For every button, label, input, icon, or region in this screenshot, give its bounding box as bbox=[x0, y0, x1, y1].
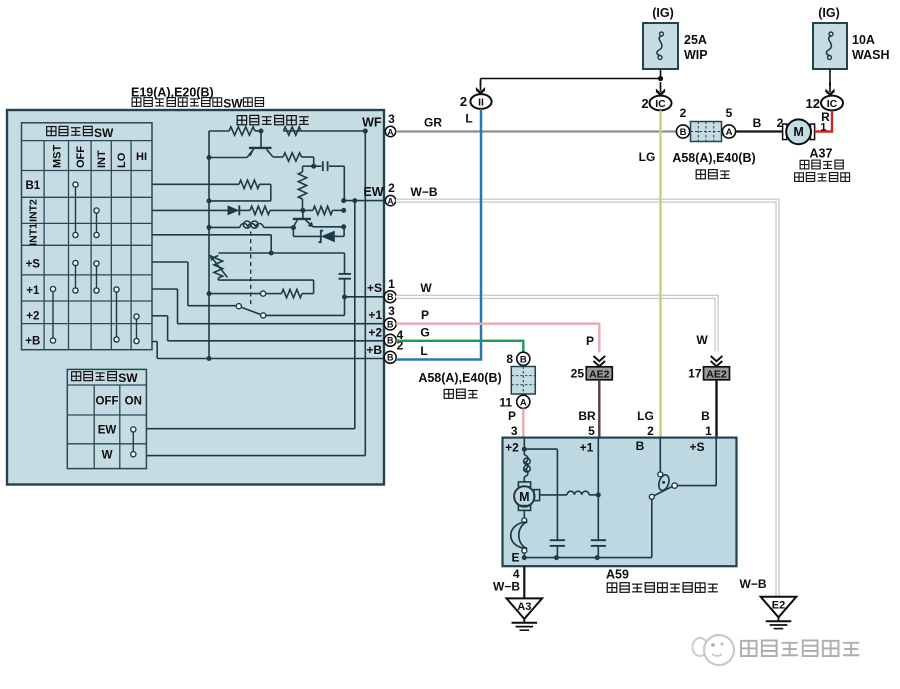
capacitor C3 bbox=[550, 539, 565, 541]
svg-text:IC: IC bbox=[655, 98, 666, 110]
svg-text:WIP: WIP bbox=[684, 48, 708, 62]
parking cam crescent bbox=[511, 522, 527, 549]
connector 25 AE2 bbox=[594, 361, 606, 366]
svg-text:MST: MST bbox=[51, 145, 63, 169]
svg-text:10A: 10A bbox=[852, 33, 875, 47]
svg-text:P: P bbox=[508, 409, 516, 423]
svg-text:1: 1 bbox=[820, 122, 826, 134]
svg-text:B: B bbox=[753, 116, 762, 130]
svg-text:25A: 25A bbox=[684, 33, 707, 47]
svg-text:EW: EW bbox=[363, 185, 383, 199]
A59 +1 wire bbox=[597, 438, 599, 540]
+S row wire bbox=[152, 261, 188, 263]
wire GR (WF to junction) bbox=[396, 130, 677, 132]
svg-text:A3: A3 bbox=[517, 601, 531, 613]
resistor R8 bbox=[302, 293, 314, 295]
node B1 row / wire via resistor R5 bbox=[152, 183, 239, 185]
wire R (12 IC to washer motor) bbox=[815, 111, 832, 132]
node top rail / R1-R2 junction bbox=[259, 129, 264, 134]
svg-text:EW: EW bbox=[98, 425, 117, 437]
resistor R1 bbox=[229, 127, 255, 135]
svg-text:12: 12 bbox=[806, 96, 820, 111]
variable resistor VR1 bbox=[214, 256, 223, 279]
svg-text:(IG): (IG) bbox=[818, 6, 840, 20]
INT1 row wire bbox=[152, 234, 271, 236]
wire B (junction to washer motor) bbox=[736, 130, 783, 132]
svg-text:2: 2 bbox=[641, 96, 648, 111]
svg-text:+B: +B bbox=[366, 343, 382, 357]
wire P (+1 to 25 AE2) bbox=[396, 324, 600, 353]
relay coil L1 bbox=[209, 226, 240, 228]
svg-text:W−B: W−B bbox=[411, 185, 438, 199]
svg-text:WASH: WASH bbox=[852, 48, 890, 62]
svg-text:A: A bbox=[387, 127, 393, 137]
resistor R5 bbox=[239, 180, 260, 188]
ground E2 bbox=[761, 597, 797, 618]
svg-text:A59: A59 bbox=[606, 568, 629, 582]
svg-text:AE2: AE2 bbox=[706, 368, 727, 380]
resistor R3 bbox=[273, 156, 283, 158]
svg-text:A37: A37 bbox=[810, 147, 833, 161]
svg-text:B: B bbox=[387, 319, 394, 329]
svg-text:(IG): (IG) bbox=[652, 6, 674, 20]
svg-text:+1: +1 bbox=[580, 441, 594, 455]
connector 17 AE2 bbox=[711, 361, 723, 366]
svg-text:11: 11 bbox=[499, 396, 512, 410]
svg-text:B: B bbox=[387, 336, 394, 346]
arrow into II bbox=[480, 81, 482, 91]
capacitor C1 bbox=[314, 165, 322, 167]
logo text bbox=[741, 641, 757, 656]
svg-text:2: 2 bbox=[460, 94, 467, 109]
front wiper switch table bbox=[22, 123, 153, 350]
svg-text:A: A bbox=[726, 127, 733, 138]
svg-text:SW: SW bbox=[94, 126, 114, 140]
relay supply rail top bbox=[209, 130, 229, 132]
relay contact arm bbox=[241, 307, 261, 314]
svg-text:L: L bbox=[420, 344, 427, 358]
A59 +2 node bbox=[523, 438, 525, 455]
ground A3 bbox=[507, 598, 543, 619]
park switch contacts bbox=[672, 483, 677, 488]
armature choke coil bbox=[524, 455, 528, 477]
svg-text:WF: WF bbox=[362, 116, 382, 130]
wiper switch assembly E19(A),E20(B) box bbox=[7, 110, 384, 485]
relay contact c bbox=[261, 313, 266, 318]
EW node wire bbox=[344, 200, 384, 202]
svg-text:B: B bbox=[680, 127, 687, 138]
transistor Q2 bbox=[302, 210, 304, 219]
+2 row wire bbox=[152, 315, 168, 317]
junction bbox=[658, 76, 663, 81]
svg-text:1: 1 bbox=[705, 424, 712, 438]
wire L (+B to II) bbox=[396, 109, 481, 360]
svg-text:E2: E2 bbox=[772, 599, 785, 611]
capacitor C2 bbox=[339, 273, 352, 275]
svg-text:M: M bbox=[519, 490, 529, 504]
resistor R4 bbox=[303, 165, 314, 167]
contact to +S pin wire bbox=[266, 314, 345, 316]
svg-text:+2: +2 bbox=[368, 325, 382, 339]
wire branch to II connector bbox=[481, 78, 661, 80]
EW to washer switch wire bbox=[354, 201, 356, 429]
svg-text:2: 2 bbox=[680, 106, 687, 120]
front washer switch table bbox=[67, 369, 146, 468]
INT2 row wire bbox=[152, 209, 228, 211]
svg-text:+2: +2 bbox=[26, 311, 39, 323]
svg-text:IC: IC bbox=[827, 98, 838, 110]
mechanical link (dashed) bbox=[250, 232, 252, 306]
+B row wire bbox=[152, 341, 157, 343]
svg-text:OFF: OFF bbox=[75, 146, 87, 168]
brush coil to +1 bbox=[540, 494, 567, 496]
svg-text:P: P bbox=[586, 334, 594, 348]
svg-text:M: M bbox=[793, 125, 803, 139]
svg-text:A58(A),E40(B): A58(A),E40(B) bbox=[672, 151, 755, 165]
wiper motor A59 box bbox=[503, 438, 737, 567]
svg-text:ON: ON bbox=[125, 396, 142, 408]
svg-text:LG: LG bbox=[639, 150, 656, 164]
washer motor A37 bbox=[783, 124, 787, 140]
svg-text:W: W bbox=[420, 281, 432, 295]
svg-text:L: L bbox=[465, 112, 472, 126]
switch position contacts bbox=[75, 185, 77, 236]
wire W-B (EW to E2 ground) bbox=[396, 201, 778, 597]
svg-text:+2: +2 bbox=[505, 441, 519, 455]
interval control line bbox=[218, 252, 344, 254]
wire P (11A to A59 +2) bbox=[522, 409, 524, 438]
svg-text:P: P bbox=[421, 308, 429, 322]
svg-text:B: B bbox=[387, 353, 394, 363]
svg-text:1: 1 bbox=[388, 277, 395, 291]
svg-text:AE2: AE2 bbox=[589, 368, 610, 380]
wire G (+2 to junction 8B) bbox=[396, 341, 524, 352]
svg-text:W: W bbox=[696, 333, 708, 347]
svg-text:A: A bbox=[520, 397, 527, 408]
resistor R6 bbox=[239, 209, 250, 211]
svg-text:LG: LG bbox=[637, 409, 654, 423]
svg-text:LO: LO bbox=[116, 152, 128, 168]
svg-text:INT: INT bbox=[96, 150, 108, 168]
E node line bbox=[524, 557, 652, 559]
relay contact a bbox=[261, 291, 266, 296]
svg-text:8: 8 bbox=[506, 352, 513, 366]
park switch cam bbox=[657, 474, 671, 492]
svg-text:W: W bbox=[102, 450, 113, 462]
svg-text:HI: HI bbox=[136, 151, 147, 163]
svg-text:2: 2 bbox=[388, 181, 395, 195]
svg-text:W−B: W−B bbox=[493, 580, 520, 594]
svg-text:5: 5 bbox=[588, 424, 595, 438]
svg-text:+S: +S bbox=[367, 281, 382, 295]
svg-text:II: II bbox=[478, 97, 484, 109]
logo icon bbox=[693, 638, 708, 656]
svg-text:W−B: W−B bbox=[740, 577, 767, 591]
svg-text:+1: +1 bbox=[26, 285, 40, 297]
park switch to +S bbox=[677, 485, 716, 487]
wire BR (25 AE2 to A59 +1) bbox=[598, 380, 600, 438]
motor to parking cam bbox=[523, 510, 525, 517]
wire from WASH fuse bbox=[829, 69, 831, 86]
motor M bbox=[518, 482, 530, 487]
svg-text:2: 2 bbox=[647, 424, 654, 438]
svg-text:+1: +1 bbox=[368, 308, 382, 322]
svg-text:E: E bbox=[511, 551, 519, 565]
svg-text:SW: SW bbox=[223, 97, 243, 111]
resistor R2 bbox=[284, 127, 302, 135]
wire from WIP fuse bbox=[660, 69, 662, 79]
wire LG (IC to A59 pin B) bbox=[659, 111, 662, 438]
+1 row wire bbox=[152, 288, 178, 290]
branch to capacitor C3 bbox=[524, 448, 557, 450]
washer switch contact bbox=[132, 429, 134, 454]
WF to washer switch wire bbox=[364, 131, 366, 456]
svg-text:3: 3 bbox=[511, 424, 518, 438]
svg-text:OFF: OFF bbox=[96, 396, 119, 408]
svg-text:17: 17 bbox=[688, 367, 702, 381]
transistor Q1 bbox=[260, 131, 262, 148]
svg-text:5: 5 bbox=[726, 106, 733, 120]
svg-text:+S: +S bbox=[26, 259, 41, 271]
svg-text:BR: BR bbox=[578, 409, 596, 423]
svg-text:25: 25 bbox=[571, 367, 585, 381]
svg-text:3: 3 bbox=[388, 112, 395, 126]
wiper relay label bbox=[237, 116, 246, 125]
svg-text:+B: +B bbox=[25, 336, 40, 348]
svg-text:GR: GR bbox=[424, 116, 442, 130]
svg-text:B: B bbox=[636, 439, 645, 453]
table header bbox=[47, 127, 56, 136]
svg-text:B: B bbox=[701, 409, 710, 423]
svg-text:G: G bbox=[420, 325, 429, 339]
svg-text:INT1: INT1 bbox=[28, 223, 40, 246]
svg-text:SW: SW bbox=[118, 371, 138, 385]
svg-text:B1: B1 bbox=[25, 180, 40, 192]
A59 pin B wire bbox=[659, 438, 661, 472]
wire W (+S to 17 AE2) bbox=[396, 297, 717, 352]
svg-text:3: 3 bbox=[388, 304, 395, 318]
svg-text:B: B bbox=[520, 354, 527, 365]
wire B (17 AE2 to A59 +S) bbox=[715, 380, 717, 438]
relay contact b bbox=[236, 304, 241, 309]
svg-text:A58(A),E40(B): A58(A),E40(B) bbox=[418, 371, 501, 385]
svg-text:+S: +S bbox=[689, 440, 704, 454]
svg-text:A: A bbox=[387, 196, 393, 206]
resistor R7 bbox=[303, 209, 313, 211]
wire R5 loop to rail bbox=[260, 183, 271, 185]
diode D1 bbox=[228, 205, 240, 215]
wire to ground A3 bbox=[523, 566, 525, 598]
left rail wire bbox=[208, 131, 210, 359]
svg-text:B: B bbox=[387, 292, 394, 302]
zener diode ZD1 bbox=[292, 228, 294, 237]
capacitor C4 bbox=[591, 539, 606, 541]
svg-text:INT2: INT2 bbox=[28, 199, 40, 222]
